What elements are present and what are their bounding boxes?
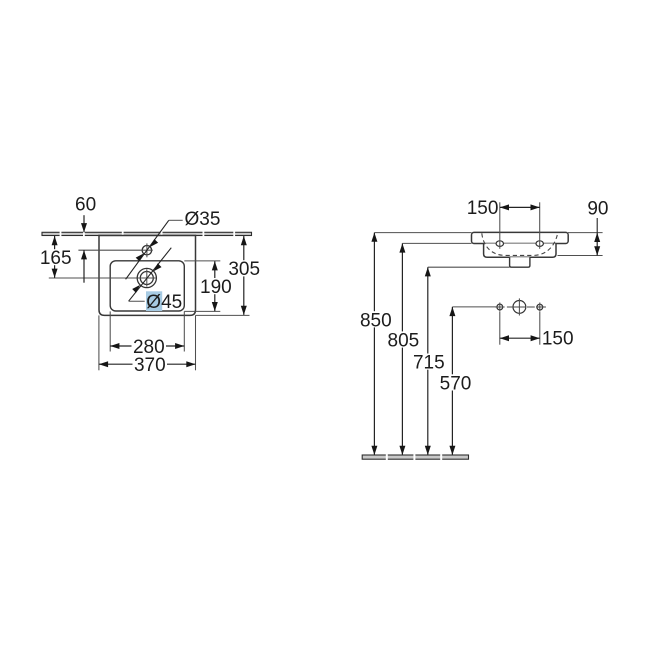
dimension 60 (wall to tap hole) xyxy=(75,194,96,282)
basin body (side view) xyxy=(484,244,556,258)
dimension 150 top: extension lines through mounting holes xyxy=(499,202,501,249)
wall fitting small circle right (side view) xyxy=(537,303,543,312)
dimension 305 (basin depth overall) xyxy=(228,236,260,315)
basin left edge extension (down, for 370) xyxy=(98,315,100,370)
svg-text:805: 805 xyxy=(388,330,420,351)
dimension 90 (rim height) xyxy=(587,198,608,255)
drain hole circles xyxy=(137,268,156,287)
svg-text:Ø35: Ø35 xyxy=(185,209,221,230)
side view: extension line at trap bottom (715 level) xyxy=(428,266,510,268)
leader line Ø35 xyxy=(126,220,183,279)
side view: extension line at rim bottom (805 level) xyxy=(402,242,471,244)
bowl right edge extension (down, for 280) xyxy=(183,311,185,351)
wall fitting small circle left (side view) xyxy=(497,303,503,312)
bowl top edge extension (right, for 190) xyxy=(184,260,220,262)
mounting hole left (side view) xyxy=(496,241,503,247)
dimension 570 (wall fitting height) xyxy=(440,307,472,455)
highlight box on Ø45 xyxy=(146,291,162,311)
faucet centerline extension (left) xyxy=(78,249,141,251)
svg-text:90: 90 xyxy=(587,198,608,219)
bowl left edge extension (down, for 280) xyxy=(109,311,111,351)
side view: long extension line at rim top (850 level) xyxy=(374,232,471,234)
floor line (side view) xyxy=(362,454,468,460)
drain centerline extension (left, for 165) xyxy=(49,277,137,279)
tap hole circle xyxy=(141,243,152,257)
wall line (plan view mounting wall bar) xyxy=(42,232,252,237)
dimension 150 top (hole spacing) xyxy=(467,198,540,219)
mounting hole right (side view) xyxy=(536,241,543,247)
svg-text:60: 60 xyxy=(75,194,96,215)
svg-text:305: 305 xyxy=(228,259,260,280)
svg-text:850: 850 xyxy=(360,310,392,331)
leader line Ø45 xyxy=(129,248,172,302)
svg-text:165: 165 xyxy=(40,248,72,269)
svg-text:190: 190 xyxy=(200,277,232,298)
drain trap box (side view) xyxy=(510,257,530,267)
dimension 805 (rim bottom height) xyxy=(388,243,420,455)
side view: extension line at body bottom right to 90 xyxy=(558,255,603,257)
svg-text:570: 570 xyxy=(440,373,472,394)
centreline dashes through wall fittings xyxy=(495,306,546,308)
basin rim (side view) xyxy=(472,232,569,243)
dimension 190 (bowl depth) xyxy=(200,261,232,311)
side view: extension line rim top right to 90 xyxy=(568,232,603,234)
svg-text:150: 150 xyxy=(542,329,574,350)
dimension 370 (basin width overall) xyxy=(99,355,196,376)
basin outer outline (plan view) xyxy=(99,236,196,316)
inner bowl outline (plan view) xyxy=(110,261,184,311)
dimension 715 (trap bottom height) xyxy=(413,267,445,455)
dimension 850 (rim top height) xyxy=(360,233,392,455)
dimension 150 bottom: extension lines xyxy=(499,312,501,345)
dimension 150 bottom (fitting spacing) xyxy=(500,329,574,350)
wall fitting centre circle (side view) xyxy=(513,298,526,315)
svg-text:715: 715 xyxy=(413,353,445,374)
svg-text:150: 150 xyxy=(467,198,499,219)
dimension 165 (wall to drain centre) xyxy=(40,236,72,278)
svg-text:370: 370 xyxy=(134,355,166,376)
bowl bottom edge extension (right, for 190) xyxy=(184,310,220,312)
bowl profile dashed curve (side view) xyxy=(482,233,558,255)
dimension 280 (bowl width) xyxy=(110,337,184,358)
basin right edge extension (down, for 370) xyxy=(195,315,197,370)
basin bottom edge extension (right, for 305) xyxy=(196,314,250,316)
svg-text:Ø45: Ø45 xyxy=(146,292,182,313)
side view: extension line at wall-fitting centre (570 level) xyxy=(452,306,497,308)
